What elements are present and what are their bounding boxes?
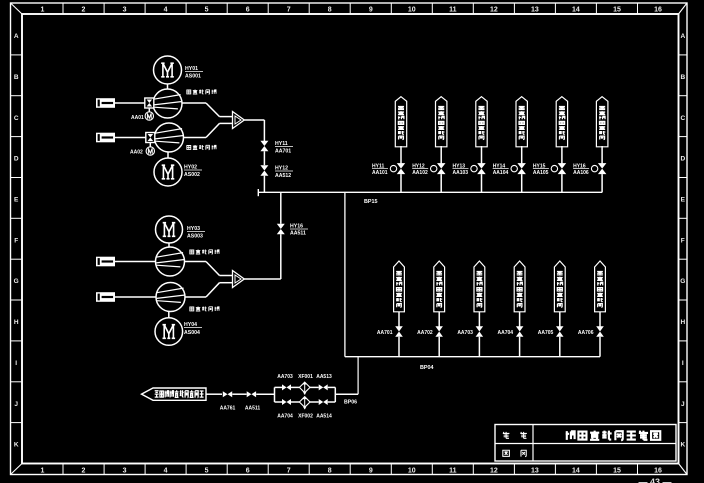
title block frame — [495, 425, 676, 462]
cell label: name — [503, 432, 527, 439]
drop from bottom header to purge line — [357, 357, 359, 395]
svg-text:AA701: AA701 — [275, 149, 291, 155]
cell label: drawing no — [503, 450, 526, 456]
valve AA511b — [247, 391, 256, 397]
svg-text:AA703: AA703 — [277, 374, 293, 380]
valve HY16/AA106 — [598, 163, 607, 174]
svg-text:2: 2 — [82, 467, 86, 474]
svg-text:13: 13 — [531, 467, 539, 474]
svg-text:C: C — [14, 115, 19, 122]
junction duct triangle 1 — [233, 112, 245, 129]
corner diagonal top-left — [11, 3, 23, 14]
svg-text:AA706: AA706 — [578, 330, 594, 336]
motor M3 (HY03/AS003) — [156, 216, 183, 243]
wire fan F3 outlet — [185, 261, 207, 263]
label HY03/AS003 — [187, 226, 205, 240]
svg-text:10: 10 — [408, 467, 416, 474]
svg-text:14: 14 — [572, 6, 580, 13]
svg-text:16: 16 — [654, 467, 662, 474]
wire box T6 to valve — [601, 146, 603, 164]
svg-text:8: 8 — [328, 6, 332, 13]
svg-text:16: 16 — [654, 6, 662, 13]
svg-text:AA703: AA703 — [457, 330, 473, 336]
wire purge line segment 1 — [206, 393, 222, 395]
svg-text:AA101: AA101 — [372, 170, 388, 176]
silencer inlet 3 — [96, 257, 115, 267]
valve HY15/AA105 — [558, 163, 567, 174]
svg-text:9: 9 — [369, 6, 373, 13]
wire box T5 to valve — [561, 146, 563, 164]
svg-text:G: G — [14, 278, 19, 285]
svg-text:AA511: AA511 — [290, 231, 306, 237]
svg-text:XF001: XF001 — [298, 374, 313, 380]
wire valve B4 to header — [519, 337, 521, 357]
silencer inlet 4 — [96, 292, 115, 302]
valve AA704 — [516, 326, 524, 337]
filter XF001 — [299, 381, 310, 395]
wire fan F1 outlet — [182, 102, 206, 104]
svg-text:AA704: AA704 — [498, 330, 514, 336]
junction duct triangle 2 — [233, 271, 245, 288]
svg-text:XF002: XF002 — [298, 414, 313, 420]
wire silencer2 to damper2 — [115, 137, 146, 139]
seal air consumer arrow box T2 — [436, 97, 447, 147]
label HY16/AA511 — [290, 224, 308, 237]
wire rejoin to drop — [335, 393, 358, 395]
wire triangle1 to valve column — [244, 119, 264, 121]
damper AA01 — [145, 98, 154, 108]
wire box B2 to valve — [438, 312, 440, 327]
corner diagonal top-right — [679, 3, 688, 14]
svg-text:A: A — [14, 33, 19, 40]
svg-text:HY04: HY04 — [184, 322, 197, 328]
right ruler cell dividers — [679, 54, 688, 56]
wire valve B3 to header — [478, 337, 480, 357]
svg-text:AS004: AS004 — [184, 330, 200, 336]
svg-text:5: 5 — [205, 6, 209, 13]
svg-text:B: B — [14, 74, 19, 81]
wire box B5 to valve — [559, 312, 561, 327]
parallel block rejoin — [334, 387, 336, 402]
wire to filter XF001 — [291, 386, 299, 388]
valve AA514 — [319, 399, 328, 405]
label HY13/AA103 — [453, 164, 469, 177]
fan F3 name label — [190, 250, 219, 255]
valve AA705 — [556, 326, 564, 337]
svg-text:HY12: HY12 — [275, 166, 288, 172]
svg-text:AA512: AA512 — [275, 173, 291, 179]
solenoid circle T1 — [390, 165, 396, 171]
bottom ruler cell dividers — [62, 464, 64, 475]
svg-text:3: 3 — [123, 467, 127, 474]
svg-text:J: J — [681, 401, 685, 408]
svg-text:AA02: AA02 — [130, 150, 143, 156]
riser top header to bottom header — [344, 192, 346, 356]
svg-text:3: 3 — [123, 6, 127, 13]
wire triangle2 to riser — [244, 278, 280, 280]
svg-text:AA704: AA704 — [277, 414, 293, 420]
svg-text:E: E — [14, 197, 19, 204]
svg-text:BP06: BP06 — [344, 400, 357, 406]
seal air consumer arrow box T1 — [395, 97, 406, 147]
seal air consumer arrow box T6 — [596, 97, 608, 147]
wire filter to valve AA513 — [310, 386, 319, 388]
svg-text:AS003: AS003 — [187, 234, 203, 240]
valve HY16/AA511 — [277, 224, 285, 234]
valve AA513 — [319, 384, 328, 390]
seal air consumer arrow box T4 — [516, 97, 527, 147]
wire fan F4 outlet — [185, 296, 206, 298]
valve HY12/AA102 — [437, 163, 446, 174]
fan F2 name label — [187, 145, 216, 150]
wire box T4 to valve — [521, 146, 523, 164]
wire box B4 to valve — [519, 312, 521, 327]
motor M4 (HY04/AS004) — [155, 318, 183, 346]
fan F4 name label — [190, 307, 219, 312]
svg-text:AA514: AA514 — [316, 414, 332, 420]
svg-text:G: G — [680, 278, 685, 285]
svg-text:AA105: AA105 — [533, 170, 549, 176]
svg-text:11: 11 — [449, 6, 457, 13]
label HY12/AA512 — [275, 166, 293, 180]
svg-text:F: F — [14, 237, 18, 244]
wire valve T6 to header — [601, 174, 603, 192]
svg-text:H: H — [680, 319, 685, 326]
wire fan F2 outlet — [184, 137, 207, 139]
valve AA703 — [282, 384, 291, 390]
bottom header pipe — [345, 356, 600, 358]
wire silencer4 to fan F4 — [115, 296, 156, 298]
svg-text:6: 6 — [246, 467, 250, 474]
svg-text:2: 2 — [82, 6, 86, 13]
valve HY13/AA103 — [477, 163, 486, 174]
silencer inlet 1 — [96, 98, 115, 108]
wire valve T3 to header — [481, 174, 483, 192]
header left end tick — [257, 189, 259, 196]
fan F2 — [155, 123, 184, 152]
damper AA02 — [146, 133, 155, 143]
seal air consumer arrow box B4 — [514, 261, 525, 312]
wire valve T5 to header — [561, 174, 563, 192]
svg-text:1: 1 — [41, 6, 45, 13]
svg-text:D: D — [14, 156, 19, 163]
motor M1 (HY01/AS001) — [154, 56, 182, 84]
wire silencer3 to fan F3 — [115, 261, 156, 263]
valve HY11/AA701 — [260, 141, 268, 151]
drawing title — [566, 431, 661, 441]
svg-text:H: H — [14, 319, 19, 326]
label HY12/AA102 — [412, 164, 428, 177]
svg-text:HY16: HY16 — [290, 224, 303, 230]
svg-text:AA705: AA705 — [538, 330, 554, 336]
valve AA703 — [476, 326, 484, 337]
svg-text:13: 13 — [531, 6, 539, 13]
top header pipe — [258, 191, 602, 193]
svg-text:B: B — [680, 74, 685, 81]
svg-text:5: 5 — [205, 467, 209, 474]
svg-text:10: 10 — [408, 6, 416, 13]
solenoid circle T4 — [511, 165, 517, 171]
label HY15/AA105 — [533, 164, 549, 177]
svg-text:8: 8 — [328, 467, 332, 474]
svg-text:AA701: AA701 — [377, 330, 393, 336]
fan F1 — [153, 89, 182, 118]
svg-text:AA702: AA702 — [417, 330, 433, 336]
svg-text:AA511: AA511 — [245, 406, 261, 412]
corner diagonal bottom-left — [11, 464, 23, 475]
seal air consumer arrow box B2 — [434, 261, 445, 312]
wire motor M3 to fan F3 — [168, 243, 170, 247]
damper motor M 2 — [146, 143, 154, 155]
svg-text:HY11: HY11 — [275, 141, 288, 147]
svg-text:— 43 —: — 43 — — [638, 477, 671, 483]
label HY14/AA104 — [493, 164, 509, 177]
wire motor M4 to fan F4 — [168, 312, 170, 318]
svg-text:AA761: AA761 — [220, 406, 236, 412]
title block vertical divider — [532, 425, 534, 462]
svg-text:K: K — [14, 442, 19, 449]
wire box T2 to valve — [440, 146, 442, 164]
wire top branch to rejoin — [328, 386, 336, 388]
valve HY14/AA104 — [517, 163, 526, 174]
seal air consumer arrow box B3 — [474, 261, 485, 312]
wire box B1 to valve — [398, 312, 400, 327]
solenoid circle T5 — [551, 165, 557, 171]
label HY11/AA101 — [372, 164, 388, 177]
svg-text:HY01: HY01 — [185, 66, 198, 72]
svg-text:6: 6 — [246, 6, 250, 13]
valve AA704 — [282, 399, 291, 405]
svg-text:HY03: HY03 — [187, 226, 200, 232]
svg-text:AA104: AA104 — [493, 170, 509, 176]
svg-text:AA513: AA513 — [316, 374, 332, 380]
valve AA701 — [395, 326, 403, 337]
wire valve B5 to header — [559, 337, 561, 357]
svg-text:4: 4 — [164, 6, 168, 13]
label HY11/AA701 — [275, 141, 293, 155]
wire valve HY12 to header — [263, 176, 265, 193]
wire silencer1 to damper — [115, 102, 145, 104]
svg-text:C: C — [680, 115, 685, 122]
svg-text:I: I — [682, 360, 684, 367]
wire box T3 to valve — [481, 146, 483, 164]
wire bottom branch to rejoin — [328, 401, 336, 403]
wire box T1 to valve — [400, 146, 402, 164]
top ruler cell dividers — [62, 3, 64, 14]
svg-text:F: F — [681, 237, 685, 244]
svg-text:AS001: AS001 — [185, 74, 201, 80]
svg-text:K: K — [680, 442, 685, 449]
label HY01/AS001 — [185, 66, 203, 80]
svg-text:D: D — [680, 156, 685, 163]
seal air consumer arrow box B5 — [554, 261, 565, 312]
wire box B3 to valve — [478, 312, 480, 327]
wire valve T4 to header — [521, 174, 523, 192]
wire valve HY11 to valve HY12 — [263, 151, 265, 165]
svg-text:BP04: BP04 — [420, 365, 434, 371]
solenoid circle T3 — [471, 165, 477, 171]
svg-text:9: 9 — [369, 467, 373, 474]
filter XF002 — [299, 396, 310, 410]
wire valve B6 to header — [599, 337, 601, 357]
title block horizontal divider — [495, 443, 676, 445]
wire to filter XF002 — [291, 401, 299, 403]
svg-text:AA106: AA106 — [573, 170, 589, 176]
svg-text:4: 4 — [164, 467, 168, 474]
left ruler cell dividers — [11, 54, 23, 56]
svg-text:15: 15 — [613, 6, 621, 13]
svg-text:A: A — [680, 33, 685, 40]
wire valve B1 to header — [398, 337, 400, 357]
solenoid circle T2 — [431, 165, 437, 171]
svg-text:15: 15 — [613, 467, 621, 474]
svg-text:7: 7 — [287, 6, 291, 13]
seal air consumer arrow box T5 — [556, 97, 567, 147]
svg-text:12: 12 — [490, 6, 498, 13]
valve AA706 — [596, 326, 604, 337]
damper motor M — [145, 109, 153, 121]
wire filter to valve AA514 — [310, 401, 319, 403]
fan F3 — [156, 247, 185, 276]
purge consumer arrow box (left) — [142, 388, 207, 400]
seal air consumer arrow box B6 — [595, 261, 606, 312]
motor M2 (HY02/AS002) — [154, 158, 182, 186]
svg-text:7: 7 — [287, 467, 291, 474]
wire purge line segment 3 — [256, 393, 274, 395]
fan F4 — [156, 283, 185, 312]
valve HY11/AA101 — [397, 163, 405, 174]
svg-text:I: I — [15, 360, 17, 367]
svg-text:E: E — [681, 197, 686, 204]
wire purge line segment 2 — [232, 393, 246, 395]
label HY04/AS004 — [184, 322, 202, 336]
wire motor M2 to fan F2 — [167, 153, 169, 159]
wire valve T2 to header — [440, 174, 442, 192]
wire valve HY16 to header — [280, 192, 282, 224]
svg-text:J: J — [14, 401, 18, 408]
seal air consumer arrow box T3 — [476, 97, 487, 147]
valve HY12/AA512 — [260, 165, 268, 176]
svg-text:12: 12 — [490, 467, 498, 474]
svg-text:AS002: AS002 — [184, 172, 200, 178]
label HY16/AA106 — [573, 164, 589, 177]
valve AA761 — [223, 391, 232, 397]
svg-text:AA103: AA103 — [453, 170, 469, 176]
svg-text:HY02: HY02 — [184, 165, 197, 171]
svg-text:1: 1 — [41, 467, 45, 474]
wire valve T1 to header — [400, 174, 402, 192]
wire valve B2 to header — [438, 337, 440, 357]
svg-text:11: 11 — [449, 467, 457, 474]
parallel block split — [274, 387, 276, 402]
label HY02/AS002 — [184, 165, 202, 179]
svg-text:AA102: AA102 — [412, 170, 428, 176]
svg-text:AA01: AA01 — [131, 115, 144, 121]
solenoid circle T6 — [591, 165, 597, 171]
svg-text:BP15: BP15 — [364, 199, 378, 205]
corner diagonal bottom-right — [679, 464, 688, 475]
silencer inlet 2 — [96, 133, 115, 143]
wire motor M1 to fan F1 — [167, 84, 169, 90]
seal air consumer arrow box B1 — [394, 261, 405, 312]
valve AA702 — [435, 326, 443, 337]
svg-text:14: 14 — [572, 467, 580, 474]
wire box B6 to valve — [599, 312, 601, 327]
fan F1 name label — [187, 90, 216, 95]
